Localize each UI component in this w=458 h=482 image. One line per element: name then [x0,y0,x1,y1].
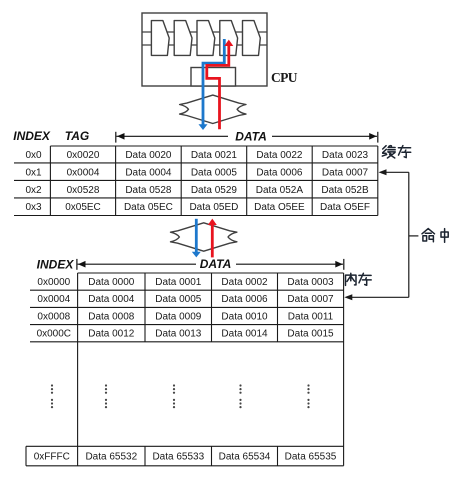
blue arrow CPU to cache [199,39,225,130]
blue arrow cache to memory [192,219,201,258]
svg-text:Data 65534: Data 65534 [219,452,271,463]
svg-text:Data 0013: Data 0013 [155,329,202,340]
pipeline stage 3 [197,21,215,56]
ellipsis dots columns [51,384,310,408]
svg-text:Data 0009: Data 0009 [155,311,202,322]
svg-text:TAG: TAG [65,129,89,143]
cache row 0x0 [25,150,368,161]
svg-text:Data 0021: Data 0021 [191,150,238,161]
cache row 0x1 [25,167,368,178]
svg-text:Data 0006: Data 0006 [256,167,303,178]
hit arrowhead into cache [379,169,387,175]
svg-text:Data 0004: Data 0004 [125,167,172,178]
hit path vertical line [350,172,418,297]
svg-text:0x0000: 0x0000 [37,277,70,288]
svg-text:Data O5EF: Data O5EF [320,202,370,213]
svg-text:Data 65532: Data 65532 [85,452,137,463]
svg-text:Data 0014: Data 0014 [221,329,268,340]
svg-text:Data 0002: Data 0002 [221,277,268,288]
svg-text:Data 0007: Data 0007 [287,294,334,305]
bus line lower [142,44,267,46]
CPU outer box [142,13,267,86]
svg-text:Data 05ED: Data 05ED [189,202,238,213]
cache table grid [14,146,378,216]
cache row 0x3 [25,202,370,213]
red arrow cache to CPU [207,40,234,130]
cache DATA header arrow [116,132,378,143]
svg-text:Data 0006: Data 0006 [221,294,268,305]
memory table grid [30,273,344,466]
pipeline stage 2 [174,21,192,56]
svg-text:0x000C: 0x000C [37,329,71,340]
svg-text:Data 0012: Data 0012 [88,329,135,340]
bus line upper [142,31,267,33]
svg-text:Data 052A: Data 052A [256,185,304,196]
svg-text:Data 0015: Data 0015 [287,329,334,340]
svg-text:Data 0528: Data 0528 [125,185,172,196]
svg-text:INDEX: INDEX [13,129,51,143]
svg-text:Data 65533: Data 65533 [152,452,204,463]
svg-text:0x2: 0x2 [25,185,42,196]
cache row 0x2 [25,185,369,196]
svg-text:Data 05EC: Data 05EC [124,202,173,213]
memory row 0x0008 [37,311,333,322]
svg-text:INDEX: INDEX [37,257,75,271]
svg-text:0x0004: 0x0004 [67,167,100,178]
label memory (Chinese nei cun) [346,273,372,285]
svg-text:Data 0007: Data 0007 [322,167,369,178]
svg-text:Data 0003: Data 0003 [287,277,334,288]
label cache (Chinese huan cun) [382,146,410,158]
hit arrowhead into memory [344,294,352,300]
memory DATA header arrow [77,259,344,270]
svg-text:0x0: 0x0 [25,150,42,161]
label hit (Chinese ming zhong) [422,229,448,243]
svg-text:Data 0011: Data 0011 [288,311,334,322]
svg-text:0x0008: 0x0008 [37,311,70,322]
memory bottom row grid [26,446,344,466]
memory row 0x0004 [37,294,334,305]
svg-text:0x3: 0x3 [25,202,42,213]
svg-text:0x0020: 0x0020 [67,150,100,161]
red arrow memory to cache [208,219,217,258]
pipeline stage 5 [243,21,261,56]
svg-text:Data 65535: Data 65535 [285,452,337,463]
svg-text:Data O5EE: Data O5EE [254,202,305,213]
CPU internal cache rectangle [191,68,236,87]
svg-text:0x0004: 0x0004 [37,294,70,305]
svg-text:0x1: 0x1 [25,167,42,178]
svg-text:Data 0023: Data 0023 [322,150,369,161]
svg-text:DATA: DATA [200,257,232,271]
svg-text:Data 0010: Data 0010 [221,311,268,322]
hollow double arrow middle [171,223,237,251]
svg-text:Data 0529: Data 0529 [191,185,238,196]
svg-text:DATA: DATA [235,129,267,143]
svg-text:Data 0004: Data 0004 [88,294,135,305]
svg-text:CPU: CPU [271,70,298,85]
svg-text:Data 0020: Data 0020 [125,150,172,161]
memory row 0x000C [37,329,334,340]
svg-text:0x05EC: 0x05EC [65,202,101,213]
pipeline stage 4 [220,21,238,56]
svg-text:Data 0008: Data 0008 [88,311,135,322]
svg-text:Data 0022: Data 0022 [256,150,303,161]
svg-text:Data 0005: Data 0005 [155,294,202,305]
svg-text:Data 052B: Data 052B [321,185,369,196]
memory row 0x0000 [37,277,334,288]
svg-text:Data 0000: Data 0000 [88,277,135,288]
svg-text:Data 0005: Data 0005 [191,167,238,178]
memory row 0xFFFC [34,452,337,463]
svg-text:0xFFFC: 0xFFFC [34,452,70,463]
svg-text:0x0528: 0x0528 [67,185,100,196]
svg-text:Data 0001: Data 0001 [155,277,202,288]
pipeline stage 1 [151,21,169,56]
hollow double arrow top [180,95,246,123]
